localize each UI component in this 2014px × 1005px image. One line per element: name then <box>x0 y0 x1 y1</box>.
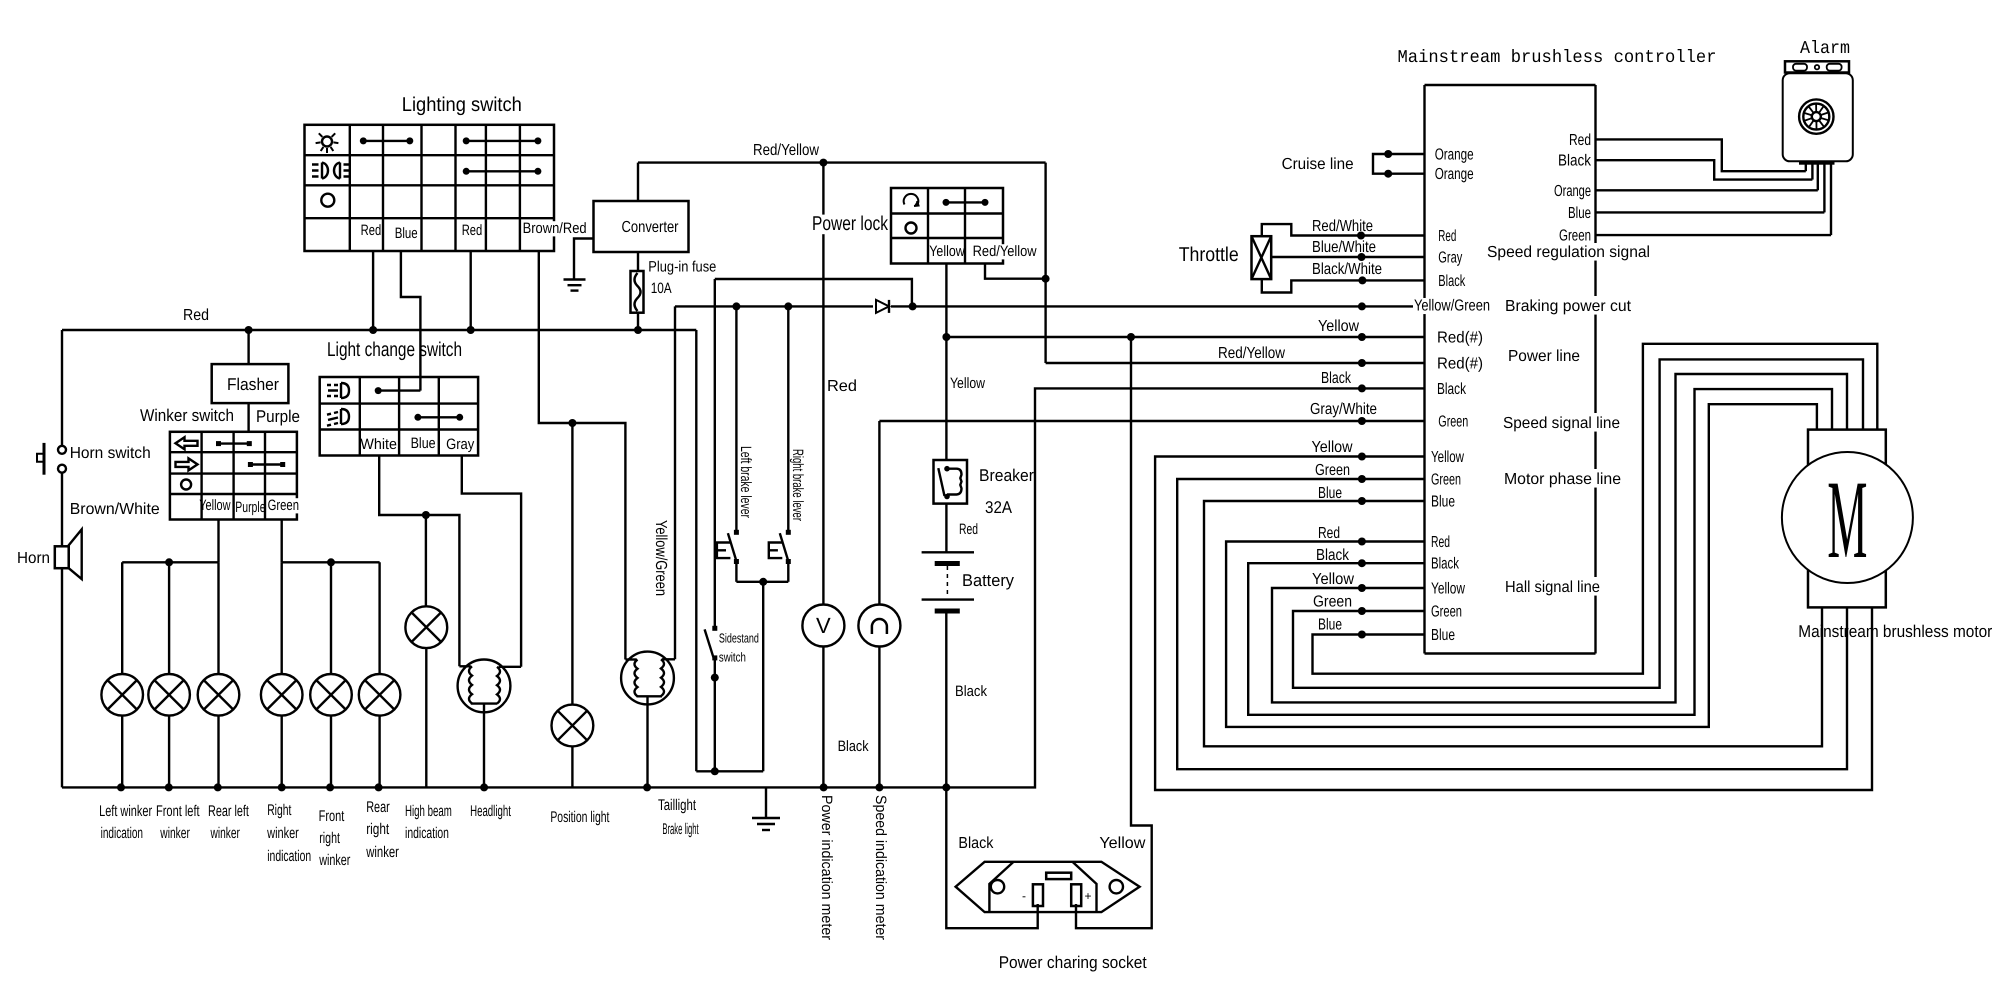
svg-text:Position light: Position light <box>550 809 610 826</box>
svg-text:Converter: Converter <box>622 219 680 236</box>
right winker indication lamp <box>261 674 303 716</box>
wire: braking power cut line <box>675 305 873 307</box>
svg-text:Hall signal line: Hall signal line <box>1505 579 1600 596</box>
wire: breaker to battery <box>945 504 947 553</box>
svg-text:Left winker: Left winker <box>99 803 152 820</box>
svg-text:Alarm: Alarm <box>1800 39 1850 59</box>
svg-text:Red: Red <box>959 521 978 538</box>
node: sidestand lower dot <box>711 674 719 682</box>
power charging socket <box>956 862 1140 912</box>
svg-text:Braking power cut: Braking power cut <box>1505 298 1632 315</box>
front right winker lamp <box>310 674 352 716</box>
rear left winker lamp <box>198 674 240 716</box>
label Braking power cut <box>1504 298 1632 314</box>
icon: key turn (row1) <box>904 194 919 205</box>
svg-text:Blue: Blue <box>395 225 418 242</box>
svg-text:Blue: Blue <box>1431 494 1455 511</box>
svg-text:Orange: Orange <box>1435 147 1474 164</box>
front left winker lamp <box>148 674 190 716</box>
svg-text:Red: Red <box>361 222 382 239</box>
svg-text:Speed regulation signal: Speed regulation signal <box>1487 244 1650 261</box>
wire: brake common down <box>762 582 764 772</box>
svg-text:Yellow: Yellow <box>1312 439 1353 456</box>
svg-text:Green: Green <box>1315 462 1350 479</box>
svg-text:Right: Right <box>267 802 292 819</box>
svg-text:Red(#): Red(#) <box>1437 330 1483 347</box>
wire: bus to right winker indication lamp <box>281 562 283 674</box>
contact bar row2 <box>250 463 282 465</box>
svg-text:Horn switch: Horn switch <box>70 445 151 462</box>
wire: front left winker lamp to rail <box>168 716 170 788</box>
wire: taillight to rail <box>646 696 648 787</box>
node: sidestand bottom junction <box>711 767 719 775</box>
svg-text:winker: winker <box>210 825 240 842</box>
svg-text:Black: Black <box>1316 547 1350 564</box>
wire: cruise line loop <box>1373 154 1425 174</box>
svg-text:Red: Red <box>827 378 857 395</box>
wire: hall signal Blue <box>1313 344 1878 674</box>
svg-text:M: M <box>1827 458 1867 582</box>
breaker 32A <box>934 460 968 504</box>
wire: alarm pin 2 <box>1811 165 1813 180</box>
battery <box>922 551 974 553</box>
svg-text:Black: Black <box>1558 153 1592 170</box>
contact bar row1 <box>378 389 420 391</box>
power lock table <box>891 188 1003 264</box>
label Red (V meter feed) <box>826 378 858 394</box>
svg-text:Black: Black <box>1321 370 1352 387</box>
label Power indication meter (rotated) <box>818 795 835 940</box>
svg-text:Green: Green <box>268 497 299 514</box>
label Yellow/Green (rotated) <box>652 520 669 596</box>
wire: motor phase Yellow <box>1155 457 1872 791</box>
wire: position light feed <box>571 423 573 705</box>
svg-text:32A: 32A <box>985 498 1013 517</box>
wire: horn to ground rail <box>61 568 63 787</box>
flasher <box>212 364 289 403</box>
svg-text:Red: Red <box>1569 132 1591 149</box>
icon: high beam (row1) <box>327 383 349 398</box>
contact bar row1 right <box>466 140 538 142</box>
wire: high beam indication lamp to rail <box>425 648 427 787</box>
svg-text:Power indication meter: Power indication meter <box>818 795 835 940</box>
wire: winker Yellow output to left lamp bus <box>217 520 219 563</box>
left winker indication lamp <box>101 674 143 716</box>
svg-text:Black: Black <box>958 835 994 852</box>
svg-text:Lighting switch: Lighting switch <box>402 94 522 116</box>
svg-text:Blue: Blue <box>1318 485 1342 502</box>
svg-text:Left brake lever: Left brake lever <box>737 446 754 518</box>
wire: taillight right terminal up feed <box>674 306 676 659</box>
wire: tap to high beam indication lamp <box>425 515 427 606</box>
svg-text:Horn: Horn <box>17 550 50 567</box>
svg-text:Rear: Rear <box>366 799 390 816</box>
svg-text:Right brake lever: Right brake lever <box>789 449 806 521</box>
label Hall signal line <box>1504 579 1601 595</box>
svg-text:indication: indication <box>267 848 311 865</box>
svg-text:Red: Red <box>1438 228 1456 245</box>
svg-text:Red: Red <box>462 222 483 239</box>
contact bar row1 left <box>363 140 410 142</box>
wire: power lock Red/Yellow output <box>985 264 1046 279</box>
wire: right winker indication lamp to rail <box>281 716 283 788</box>
svg-text:Red/White: Red/White <box>1312 218 1373 235</box>
wire: battery negative to charging socket minus <box>946 787 1037 928</box>
svg-text:Green: Green <box>1431 604 1462 621</box>
N meter (speed indication) <box>858 605 900 647</box>
label Speed regulation signal <box>1486 244 1651 260</box>
svg-text:winker: winker <box>160 825 190 842</box>
node: brake line junctions <box>732 302 740 310</box>
svg-text:Mainstream brushless motor: Mainstream brushless motor <box>1798 622 1992 641</box>
wire: N meter to rail <box>878 647 880 788</box>
svg-text:Blue: Blue <box>1568 205 1591 222</box>
node: high beam indication tap <box>422 511 430 519</box>
icon: headlight pair (row2) <box>312 163 328 179</box>
wire: battery negative to rail <box>945 614 947 788</box>
wire: sidestand top feed <box>715 279 912 306</box>
label Green <box>267 498 300 513</box>
horn (speaker) <box>55 546 69 568</box>
svg-text:Breaker: Breaker <box>979 466 1034 485</box>
wire: Red/Yellow to controller power pin <box>1046 362 1425 364</box>
wire: V meter to rail <box>822 647 824 788</box>
svg-text:Black: Black <box>1438 273 1466 290</box>
V meter (power indication) <box>802 605 844 647</box>
contact bar row2 <box>418 416 460 418</box>
icon: off circle (row2) <box>906 223 917 234</box>
right brake lever switch <box>787 306 789 530</box>
svg-text:Red(#): Red(#) <box>1437 356 1483 373</box>
svg-text:Yellow: Yellow <box>950 375 985 392</box>
svg-text:+: + <box>1084 889 1091 903</box>
node: yellow line junctions <box>1127 333 1135 341</box>
contact bar row1 <box>219 442 250 444</box>
wire: bus to front right winker lamp <box>330 562 332 674</box>
svg-text:Yellow: Yellow <box>1099 835 1145 852</box>
wire: bus to front left winker lamp <box>168 562 170 674</box>
svg-text:Speed indication meter: Speed indication meter <box>872 795 889 940</box>
wire: motor phase Blue <box>1204 501 1822 746</box>
svg-text:Yellow: Yellow <box>1318 318 1359 335</box>
svg-text:Blue: Blue <box>1431 627 1455 644</box>
node: Red/Yellow junction <box>1042 275 1050 283</box>
svg-text:Yellow: Yellow <box>1431 581 1465 598</box>
svg-text:Black/White: Black/White <box>1312 261 1382 278</box>
rear right winker lamp <box>359 674 401 716</box>
wire: alarm pin 1 <box>1805 165 1807 172</box>
icon: right arrow (row2) <box>176 458 198 470</box>
light change switch table <box>320 377 478 456</box>
wire: throttle Red/White to controller <box>1262 224 1425 236</box>
wire: rail to controller Black power pin <box>946 388 1424 787</box>
wire: lighting switch Red col5 down <box>470 251 472 330</box>
wire: V meter feed from Red/Yellow <box>822 163 824 605</box>
svg-text:Purple: Purple <box>256 407 300 426</box>
lighting switch table <box>305 125 555 251</box>
wire: alarm pin 5 <box>1830 165 1832 236</box>
svg-text:Red/Yellow: Red/Yellow <box>1218 345 1285 362</box>
svg-text:Plug-in fuse: Plug-in fuse <box>648 259 716 276</box>
svg-text:Mainstream brushless controlle: Mainstream brushless controller <box>1398 48 1717 68</box>
wire: headlight to rail <box>483 704 485 788</box>
label Left brake lever (rotated) <box>737 446 754 518</box>
wire: converter to fuse <box>637 252 639 271</box>
wire: lighting switch Brown/Red to position light and taillight <box>539 251 626 660</box>
node: position light tap <box>568 419 576 427</box>
wire: lighting switch Blue col3 to light change switch <box>401 251 421 391</box>
svg-text:Green: Green <box>1313 594 1352 611</box>
label Speed indication meter (rotated) <box>872 795 889 940</box>
label Red/Yellow (power lock) <box>972 244 1038 259</box>
contact bar row1 <box>946 201 985 203</box>
svg-text:Orange: Orange <box>1435 166 1474 183</box>
wire: lighting switch Red col2 down <box>372 251 374 330</box>
svg-text:-: - <box>1022 889 1026 903</box>
wire: flasher to winker switch (Purple) <box>247 403 249 432</box>
svg-text:Green: Green <box>1559 228 1591 245</box>
svg-text:Yellow/Green: Yellow/Green <box>652 520 669 596</box>
label Power lock <box>811 215 889 235</box>
svg-text:V: V <box>816 613 831 638</box>
wire: Red/Yellow vertical to controller <box>1044 163 1046 363</box>
svg-text:Gray: Gray <box>446 436 475 453</box>
svg-text:Front left: Front left <box>156 803 200 820</box>
node: rail junction dots <box>117 783 125 791</box>
svg-text:Taillight: Taillight <box>658 797 697 814</box>
svg-text:Gray/White: Gray/White <box>1310 401 1377 418</box>
ground symbol on rail <box>765 787 767 818</box>
wire: throttle Black/White to controller <box>1262 279 1425 292</box>
left brake lever switch <box>735 306 737 530</box>
wire: right winker lamp bus <box>282 561 380 563</box>
headlight <box>458 660 511 713</box>
svg-text:Black: Black <box>1431 556 1460 573</box>
svg-text:Green: Green <box>1438 414 1468 431</box>
svg-text:Red: Red <box>1431 534 1450 551</box>
svg-text:winker: winker <box>266 825 298 842</box>
svg-text:Power line: Power line <box>1508 348 1580 365</box>
svg-text:Brake light: Brake light <box>662 821 699 838</box>
mainstream brushless controller box <box>1423 85 1425 298</box>
svg-text:Motor phase line: Motor phase line <box>1504 471 1621 488</box>
node: red line junction dots <box>245 326 253 334</box>
throttle sensor <box>1252 236 1272 279</box>
svg-text:Black: Black <box>1437 381 1467 398</box>
svg-text:right: right <box>319 830 340 847</box>
svg-text:Brown/White: Brown/White <box>70 501 160 518</box>
wire: position light to rail <box>571 746 573 787</box>
wire: left winker indication lamp to rail <box>121 716 123 788</box>
wire: Gray output to headlight high beam <box>462 456 521 667</box>
wire: hall signal Yellow <box>1272 374 1847 702</box>
svg-text:Yellow: Yellow <box>929 243 965 260</box>
wire: speed signal line to controller <box>879 420 1424 422</box>
label Brown/Red (col7) <box>522 221 588 236</box>
wire: front right winker lamp to rail <box>330 716 332 788</box>
label Right brake lever (rotated) <box>789 449 806 521</box>
wire: N meter to speed signal line <box>878 421 880 605</box>
label Yellow/Green (braking pin) <box>1413 298 1491 314</box>
svg-text:Red/Yellow: Red/Yellow <box>973 243 1037 260</box>
wire: horn switch to horn (Brown/White) <box>61 473 63 547</box>
label Motor phase line <box>1503 471 1622 487</box>
svg-text:Speed signal line: Speed signal line <box>1503 415 1620 432</box>
wire: hall signal Green <box>1293 359 1863 687</box>
wire: brake lever common bus <box>736 581 788 583</box>
sidestand switch <box>712 626 717 631</box>
svg-text:Winker switch: Winker switch <box>140 406 234 425</box>
svg-text:10A: 10A <box>651 280 672 297</box>
svg-text:right: right <box>366 821 390 838</box>
icon: left arrow (row1) <box>176 437 198 449</box>
svg-text:Red/Yellow: Red/Yellow <box>753 142 819 159</box>
alarm unit <box>1785 61 1849 72</box>
svg-text:Power lock: Power lock <box>812 213 889 235</box>
svg-text:indication: indication <box>101 825 143 842</box>
icon: off circle (row3) <box>181 480 191 490</box>
wire: alarm pin 4 <box>1823 165 1825 213</box>
svg-text:White: White <box>360 436 397 453</box>
ground rail (bottom bus) <box>62 786 946 788</box>
svg-text:Throttle: Throttle <box>1179 244 1239 266</box>
wire: speed regulation Red <box>1596 139 1806 171</box>
wire: left winker lamp bus <box>122 561 218 563</box>
wire: sidestand switch to bottom link <box>714 660 716 771</box>
wire: power lock Yellow to breaker <box>945 264 947 461</box>
wire: red line to horn switch <box>61 330 63 446</box>
svg-text:Purple: Purple <box>235 499 265 516</box>
wire: bus to left winker indication lamp <box>121 562 123 674</box>
label Speed signal line <box>1502 415 1621 431</box>
label Yellow (breaker feed) <box>949 376 986 391</box>
node: yellow line tap <box>942 333 950 341</box>
wire: speed regulation Orange <box>1596 189 1818 191</box>
svg-text:Yellow: Yellow <box>1431 449 1464 466</box>
wire: yellow line to charging socket plus <box>1076 337 1152 928</box>
wire: speed regulation Black <box>1596 160 1813 179</box>
wire: red line down feed (right end) <box>695 330 697 771</box>
icon: low beam (row2) <box>327 409 349 426</box>
svg-text:indication: indication <box>405 825 449 842</box>
wire: bus to rear left winker lamp <box>217 562 219 674</box>
contact bar row2 <box>466 170 538 172</box>
taillight / brake light <box>621 652 674 705</box>
wire: winker Green output to right lamp bus <box>281 520 283 563</box>
winker switch table <box>170 432 297 520</box>
svg-text:Black: Black <box>955 683 987 700</box>
wire: converter to ground <box>574 239 594 280</box>
svg-text:Power charing socket: Power charing socket <box>999 953 1147 972</box>
alarm connector bar <box>1799 161 1835 164</box>
wire: speed regulation Blue <box>1596 211 1825 213</box>
icon: off circle (row3) <box>321 194 334 207</box>
wire: Yellow line to controller <box>946 336 1424 338</box>
wire: alarm pin 3 <box>1817 165 1819 191</box>
wire: rear left winker lamp to rail <box>217 716 219 788</box>
node: brake bus junction <box>759 578 767 586</box>
svg-text:Green: Green <box>1431 472 1461 489</box>
svg-text:Yellow: Yellow <box>1312 571 1354 588</box>
svg-text:Sidestand: Sidestand <box>719 631 759 646</box>
svg-text:winker: winker <box>319 852 351 869</box>
mainstream brushless motor <box>1808 430 1886 608</box>
wire: White output to headlight low beam <box>379 456 459 667</box>
svg-text:Blue: Blue <box>411 435 436 452</box>
node: V meter tap on Red/Yellow <box>819 159 827 167</box>
plug-in fuse 10A <box>631 271 644 313</box>
wire: red line to flasher <box>247 330 249 364</box>
alarm speaker <box>1799 99 1833 133</box>
wire: rear right winker lamp to rail <box>378 716 380 788</box>
wire: hall signal Red <box>1226 404 1817 727</box>
svg-text:Light change switch: Light change switch <box>327 339 462 361</box>
high beam indication lamp <box>405 606 447 648</box>
svg-text:Blue: Blue <box>1318 617 1342 634</box>
icon: position lamp (row1) <box>322 137 332 147</box>
wire: sidestand switch feed down <box>714 279 716 626</box>
wire: hall signal Black <box>1248 389 1832 715</box>
svg-text:winker: winker <box>366 844 399 861</box>
diode (braking line) <box>876 300 889 313</box>
svg-text:Yellow: Yellow <box>199 497 230 514</box>
ground symbol (converter) <box>564 278 586 280</box>
svg-text:Blue/White: Blue/White <box>1312 239 1376 256</box>
svg-text:Flasher: Flasher <box>227 375 279 394</box>
svg-text:Battery: Battery <box>962 571 1014 590</box>
svg-text:Yellow/Green: Yellow/Green <box>1414 298 1490 315</box>
wire: sidestand bottom link <box>696 770 763 772</box>
svg-text:switch: switch <box>719 650 746 665</box>
svg-text:Front: Front <box>319 808 345 825</box>
svg-text:Red: Red <box>183 307 209 324</box>
svg-text:Cruise line: Cruise line <box>1282 156 1354 173</box>
svg-text:Orange: Orange <box>1554 183 1591 200</box>
wire: motor phase Green <box>1177 479 1847 769</box>
horn switch <box>58 446 66 454</box>
svg-text:Brown/Red: Brown/Red <box>523 220 587 237</box>
wire: converter top to Red/Yellow line <box>637 163 639 201</box>
wire: Red/Yellow top line <box>638 161 1046 163</box>
svg-text:Headlight: Headlight <box>470 803 511 820</box>
svg-text:Black: Black <box>838 738 869 755</box>
wire: main red supply line <box>62 329 696 331</box>
wire: throttle Blue/White to controller <box>1271 256 1424 258</box>
svg-text:High beam: High beam <box>405 803 452 820</box>
wire: fuse to red line <box>637 313 639 330</box>
converter <box>594 201 689 252</box>
svg-text:Red: Red <box>1318 525 1340 542</box>
position light lamp <box>552 705 594 747</box>
wire: bus to rear right winker lamp <box>378 562 380 674</box>
svg-text:Gray: Gray <box>1438 250 1462 267</box>
wire: speed regulation Green <box>1596 234 1832 236</box>
svg-text:Rear left: Rear left <box>208 803 249 820</box>
